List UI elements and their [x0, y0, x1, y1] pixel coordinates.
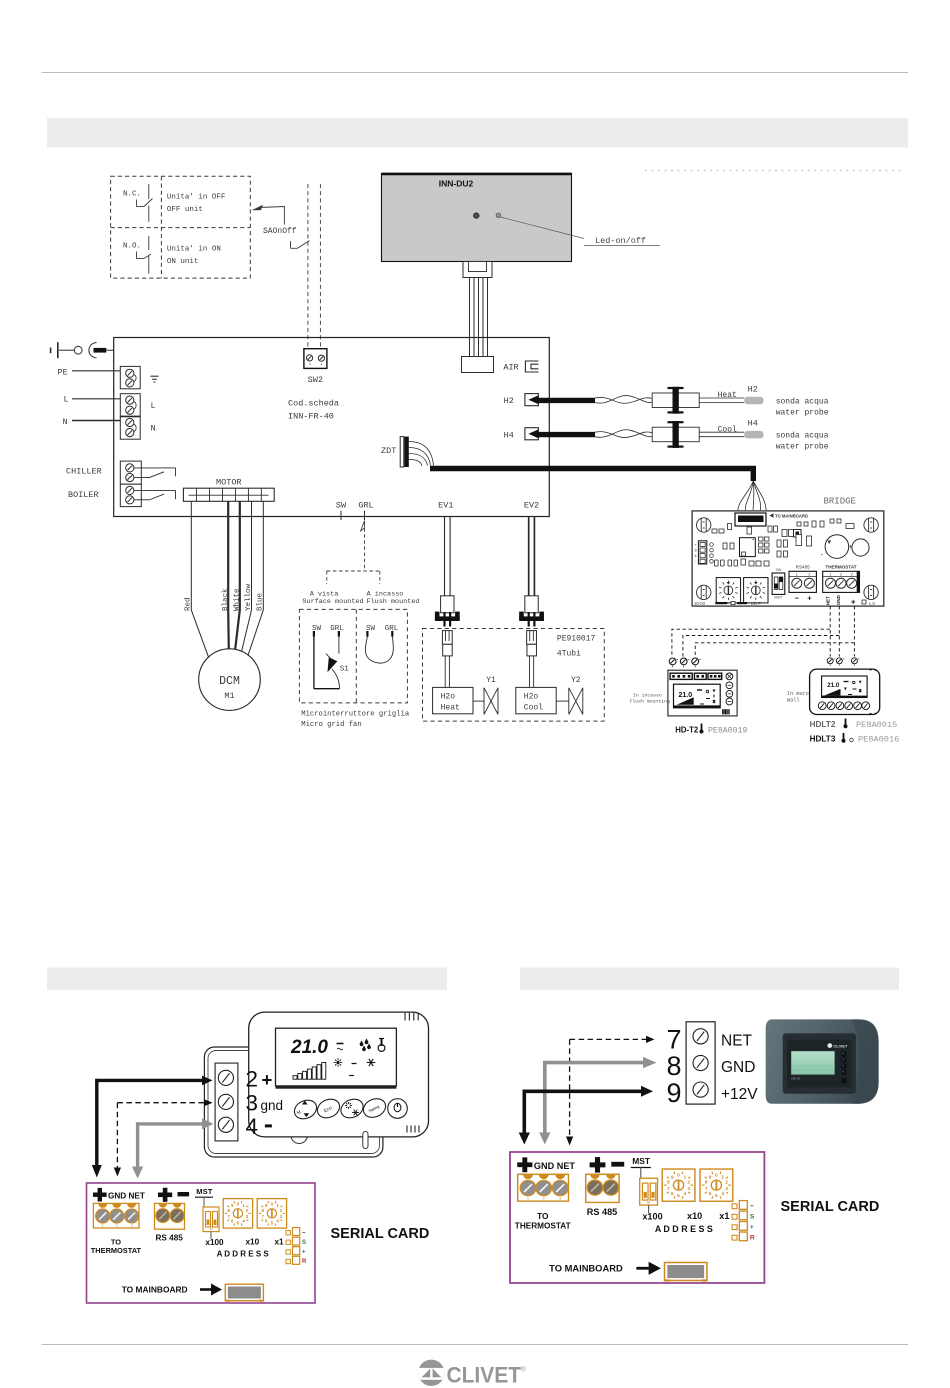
svg-text:TO MAINBOARD: TO MAINBOARD	[122, 1285, 188, 1295]
svg-text:1: 1	[796, 573, 798, 577]
svg-text:8: 8	[667, 1180, 670, 1186]
wire GRL dashed tee	[327, 570, 380, 572]
wire EV2 pair	[528, 517, 530, 613]
svg-text:TO MAINBOARD: TO MAINBOARD	[549, 1264, 623, 1274]
svg-text:+: +	[750, 1224, 754, 1231]
bridge small parts top	[712, 529, 717, 533]
mains fuse body	[94, 348, 107, 353]
bridge connector to mainboard	[735, 513, 766, 526]
zdt ribbon wires	[409, 442, 434, 466]
arrow gray to terminal 8	[545, 1061, 644, 1065]
bridge rotary switch tens	[716, 578, 740, 603]
SAOnOff switch symbol	[291, 247, 298, 249]
svg-text:N.O.: N.O.	[123, 242, 141, 250]
remote on/off selection table	[111, 176, 251, 278]
wire H2 thick	[536, 398, 595, 403]
svg-text:H4: H4	[504, 430, 514, 440]
lcd icon thermometer	[378, 1045, 385, 1052]
probe H4 sensor	[744, 431, 763, 439]
svg-text:2: 2	[543, 1196, 545, 1201]
wire SAOnOff pair dashed	[307, 184, 309, 349]
svg-text:0: 0	[677, 1172, 680, 1178]
display ribbon cable	[469, 278, 471, 357]
svg-text:Yellow: Yellow	[245, 583, 253, 611]
svg-text:PE: PE	[58, 368, 68, 378]
hdlt2 buttons	[818, 702, 826, 710]
bridge RS485 terminal	[789, 571, 816, 592]
display cable connector upper	[463, 262, 492, 278]
svg-text:®: ®	[521, 1366, 527, 1374]
hdt2 lcd	[674, 684, 721, 708]
bridge mounting hole BL	[697, 585, 711, 599]
terminal strip 7 8 9	[686, 1022, 715, 1104]
svg-text:x10: x10	[246, 1238, 260, 1247]
led on/off	[496, 213, 500, 217]
svg-text:4Tubi: 4Tubi	[557, 649, 581, 658]
lcd icon auto	[349, 1075, 354, 1077]
svg-text:3: 3	[851, 573, 853, 577]
arrow dashed to terminal 7	[570, 1038, 647, 1040]
svg-text:3: 3	[725, 1186, 728, 1192]
svg-text:R: R	[302, 1259, 307, 1265]
svg-text:Heat: Heat	[441, 704, 460, 713]
wire EV1 to valve box	[444, 656, 446, 688]
svg-text:−: −	[302, 1231, 306, 1237]
svg-text:SAOnOff: SAOnOff	[263, 227, 297, 236]
svg-text:EV2: EV2	[524, 500, 539, 510]
svg-text:21.0: 21.0	[290, 1037, 328, 1058]
hdlt2 lcd	[822, 676, 868, 698]
svg-text:SW: SW	[336, 500, 347, 510]
connector EV2 socket	[519, 612, 524, 620]
svg-text:NET: NET	[721, 1033, 753, 1050]
svg-text:A D D R E S S: A D D R E S S	[217, 1250, 270, 1259]
svg-text:5: 5	[677, 1193, 680, 1199]
A mainboard connector	[225, 1284, 263, 1301]
lcd icon drops	[360, 1041, 364, 1047]
svg-text:4: 4	[683, 1191, 686, 1197]
svg-text:HD-T2: HD-T2	[675, 725, 699, 734]
bridge resistors mid	[723, 543, 727, 549]
svg-text:Red: Red	[185, 597, 193, 611]
mains entry circle	[74, 346, 82, 354]
svg-text:M: M	[647, 1200, 650, 1204]
svg-text:SERIAL CARD: SERIAL CARD	[331, 1226, 430, 1242]
bridge rotary switch units	[744, 578, 768, 603]
svg-text:+12V: +12V	[721, 1086, 758, 1103]
svg-text:H2o: H2o	[524, 693, 539, 702]
thermostat HDLT2 body	[810, 669, 880, 714]
svg-text:INN-FR-40: INN-FR-40	[288, 412, 334, 422]
svg-text:BOILER: BOILER	[68, 490, 99, 500]
svg-text:2: 2	[840, 573, 842, 577]
svg-text:1: 1	[721, 1174, 724, 1180]
section band right	[520, 968, 899, 991]
wire H2 twisted pair	[595, 397, 652, 403]
svg-text:x1: x1	[719, 1211, 729, 1221]
serial card B	[510, 1152, 764, 1283]
svg-text:DD P: DD P	[751, 601, 761, 606]
svg-text:N: N	[151, 424, 156, 434]
svg-text:CLIVET: CLIVET	[447, 1363, 522, 1388]
svg-text:S: S	[302, 1240, 306, 1246]
svg-text:9: 9	[671, 1174, 674, 1180]
earth symbol	[151, 375, 159, 377]
svg-text:x1: x1	[275, 1238, 285, 1247]
motor DCM M1	[199, 649, 261, 711]
load H2o Heat box	[433, 687, 473, 713]
mains fuse arc	[89, 343, 97, 358]
bridge board outline	[692, 511, 884, 606]
svg-text:Y1: Y1	[486, 676, 496, 685]
thermostat front body	[249, 1012, 429, 1137]
wire ZDT bus thick	[430, 469, 753, 482]
svg-text:THERMOSTAT: THERMOSTAT	[825, 565, 856, 570]
svg-text:PE8A0019: PE8A0019	[708, 726, 747, 735]
svg-text:L: L	[151, 401, 156, 411]
svg-text:R: R	[750, 1234, 755, 1241]
svg-text:H2: H2	[748, 385, 758, 395]
mains entry ground symbol	[50, 348, 52, 354]
wire EV1 pair	[444, 517, 446, 613]
svg-text:sonda acqua: sonda acqua	[776, 432, 829, 441]
svg-text:Flush mounting: Flush mounting	[630, 699, 670, 705]
connector EV1 plug	[441, 596, 454, 613]
svg-text:2: 2	[725, 1180, 728, 1186]
svg-text:7: 7	[667, 1186, 670, 1192]
wire GRL dashed drop	[364, 522, 366, 571]
svg-text:GRL: GRL	[358, 500, 373, 510]
svg-text:Black: Black	[222, 588, 230, 611]
svg-text:ON: ON	[776, 568, 782, 572]
load H2o Cool box	[516, 687, 556, 713]
svg-text:Microinterruttore griglia: Microinterruttore griglia	[301, 711, 410, 719]
svg-text:7: 7	[667, 1025, 682, 1055]
svg-text:MST: MST	[196, 1187, 212, 1196]
svg-text:TO MAINBOARD: TO MAINBOARD	[775, 513, 808, 518]
connector SW2	[304, 349, 327, 369]
svg-text:21.0: 21.0	[679, 692, 693, 699]
A rotary x10	[223, 1199, 252, 1229]
connector H4 plug	[652, 427, 699, 442]
svg-text:A vista: A vista	[310, 590, 339, 598]
svg-text:+: +	[262, 1069, 273, 1090]
B terminal to thermostat	[518, 1174, 569, 1201]
svg-text:H2: H2	[504, 396, 514, 406]
svg-text:CLIVET: CLIVET	[833, 1044, 848, 1049]
B side connector	[732, 1204, 737, 1209]
svg-text:PE8A0015: PE8A0015	[856, 720, 897, 730]
A terminal to thermostat	[93, 1203, 139, 1228]
svg-text:Micro grid fan: Micro grid fan	[301, 721, 361, 729]
wire H4 to probe	[699, 431, 744, 433]
mains entry wire to board	[106, 349, 113, 351]
svg-text:Heat: Heat	[718, 391, 737, 400]
boiler contact wires	[134, 489, 176, 491]
svg-text:THERMOSTAT: THERMOSTAT	[91, 1246, 142, 1255]
svg-text:NET: NET	[826, 596, 831, 605]
connector EV2 plug	[525, 596, 538, 613]
svg-text:M: M	[210, 1227, 213, 1231]
svg-text:RS485: RS485	[796, 565, 810, 570]
thermostat HDLT2 terminals	[827, 658, 833, 664]
lcd icon minus	[352, 1063, 357, 1065]
svg-text:GND NET: GND NET	[108, 1192, 145, 1201]
thermostat back plate	[204, 1047, 383, 1157]
hdt2 side buttons	[726, 673, 733, 680]
svg-text:3: 3	[246, 1091, 259, 1116]
top rule	[42, 72, 908, 74]
bridge capacitor C2	[852, 539, 869, 556]
led power	[474, 213, 479, 218]
A side connector	[286, 1231, 290, 1235]
svg-text:21.0: 21.0	[827, 682, 840, 689]
svg-text:N: N	[63, 417, 68, 427]
svg-text:In incasso: In incasso	[633, 692, 662, 698]
svg-text:Unita' in ON: Unita' in ON	[167, 245, 221, 253]
svg-text:S1: S1	[340, 666, 350, 674]
svg-text:GND: GND	[836, 595, 841, 605]
svg-text:Wall: Wall	[787, 697, 799, 703]
display cable connector lower	[462, 357, 494, 373]
wire EV2 to valve box	[528, 656, 530, 688]
bridge pads row	[715, 560, 719, 566]
backplate notch	[291, 1137, 307, 1144]
B label plus gnd net	[517, 1157, 532, 1172]
A label plus gnd net	[93, 1188, 107, 1202]
A label plus minus	[158, 1188, 172, 1202]
svg-text:9: 9	[709, 1174, 712, 1180]
arrow dashed to terminal 3	[117, 1102, 204, 1104]
wire +12 dashed	[853, 606, 855, 656]
svg-text:2: 2	[687, 1180, 690, 1186]
svg-text:Cod.scheda: Cod.scheda	[288, 399, 339, 409]
bridge ic U1	[740, 538, 756, 557]
svg-text:sonda acqua: sonda acqua	[776, 398, 829, 407]
chiller contact wires	[134, 467, 176, 469]
B label plus minus	[590, 1157, 606, 1173]
svg-text:Surface mounted: Surface mounted	[302, 598, 363, 606]
svg-text:8: 8	[667, 1051, 682, 1081]
display unit INN-DU2	[382, 174, 572, 262]
wire H2 to probe	[699, 397, 744, 399]
svg-text:GND: GND	[721, 1059, 755, 1076]
svg-text:−: −	[795, 594, 800, 603]
photo lcd	[791, 1051, 834, 1074]
connector ZDT	[400, 437, 404, 467]
svg-text:2: 2	[808, 573, 810, 577]
hdt2 barcode	[722, 709, 724, 714]
logo clivet sail left	[422, 1369, 431, 1378]
svg-text:Y2: Y2	[571, 676, 581, 685]
svg-text:water probe: water probe	[776, 443, 829, 452]
wire H4 thick	[536, 432, 595, 437]
svg-text:Cool: Cool	[524, 704, 543, 713]
svg-text:HDLT2: HDLT2	[810, 720, 836, 729]
terminal strip 2 3 4	[215, 1063, 238, 1141]
photo logo	[827, 1043, 832, 1048]
svg-text:SERIAL CARD: SERIAL CARD	[781, 1199, 880, 1215]
svg-text:9: 9	[667, 1078, 682, 1108]
A rotary x1	[257, 1199, 286, 1229]
svg-text:x100: x100	[205, 1238, 224, 1247]
svg-text:Cool: Cool	[718, 425, 737, 434]
bridge label to mainboard tiny	[770, 513, 774, 518]
svg-text:A incasso: A incasso	[367, 590, 404, 598]
svg-text:5: 5	[715, 1193, 718, 1199]
SAOnOff callout arrow	[252, 205, 264, 211]
lcd icon sun	[334, 1058, 343, 1067]
wire H4 twisted pair	[595, 432, 652, 438]
svg-text:6: 6	[671, 1191, 674, 1197]
svg-text:x100: x100	[642, 1212, 662, 1222]
svg-text:GRL: GRL	[330, 625, 344, 633]
connector EV1 socket	[435, 612, 440, 620]
svg-text:RS 485: RS 485	[156, 1234, 184, 1243]
connector EV1 header	[442, 631, 452, 645]
svg-text:TO: TO	[537, 1212, 548, 1221]
probe H2 sensor	[744, 397, 763, 405]
bottom rule	[42, 1344, 908, 1346]
B rotary x10	[662, 1169, 695, 1201]
svg-text:2: 2	[116, 1224, 118, 1228]
svg-text:M1: M1	[224, 691, 234, 701]
svg-text:4: 4	[721, 1191, 724, 1197]
vents top right	[404, 1013, 406, 1021]
svg-text:+: +	[851, 598, 856, 607]
connector H2 plug	[652, 393, 699, 408]
svg-text:MST: MST	[774, 596, 783, 600]
svg-text:water probe: water probe	[776, 409, 829, 418]
bridge mounting hole TR	[864, 518, 878, 532]
svg-text:L: L	[64, 395, 69, 405]
svg-text:20-03: 20-03	[694, 601, 705, 606]
B mainboard connector	[665, 1262, 707, 1280]
header band	[47, 118, 908, 148]
bridge left connector J2	[698, 541, 706, 564]
A terminal rs485	[155, 1203, 185, 1229]
svg-text:gnd: gnd	[261, 1098, 284, 1113]
button power	[388, 1099, 408, 1119]
mainboard INN-FR-40 outline	[114, 338, 550, 517]
svg-text:PE910017: PE910017	[557, 635, 596, 644]
svg-text:In muro: In muro	[787, 691, 809, 697]
bridge mounting hole BR	[864, 585, 878, 599]
photo buttons	[841, 1051, 847, 1057]
svg-text:HDLT3: HDLT3	[810, 735, 836, 744]
svg-text:+: +	[302, 1250, 306, 1256]
backplate lever	[363, 1132, 368, 1149]
thermostat lcd frame	[276, 1028, 397, 1086]
svg-text:MST: MST	[632, 1156, 651, 1166]
svg-text:x10: x10	[687, 1211, 702, 1221]
motor wires	[191, 501, 208, 657]
svg-text:HID 50: HID 50	[792, 1077, 801, 1081]
svg-text:8: 8	[705, 1180, 708, 1186]
B terminal rs485	[586, 1174, 619, 1202]
svg-text:−: −	[750, 1203, 754, 1210]
svg-text:7: 7	[705, 1186, 708, 1192]
bridge mounting hole TL	[697, 518, 711, 532]
logo clivet sail right	[433, 1368, 442, 1377]
microswitch box dashed	[299, 609, 407, 703]
bridge capacitor C1	[825, 535, 849, 559]
svg-text:EV1: EV1	[438, 500, 453, 510]
svg-text:1: 1	[527, 1196, 529, 1201]
svg-text:0: 0	[715, 1172, 718, 1178]
svg-text:OFF unit: OFF unit	[167, 206, 203, 214]
bridge dip switch MST	[772, 573, 785, 594]
bridge THERMOSTAT terminal	[823, 571, 860, 592]
svg-text:3: 3	[131, 1224, 133, 1228]
svg-text:INN-DU2: INN-DU2	[439, 179, 474, 189]
hdt2 connector banks	[670, 673, 692, 679]
serial card A	[87, 1183, 316, 1303]
faint revision dots	[645, 170, 905, 172]
svg-text:SW2: SW2	[308, 375, 323, 385]
svg-text:1: 1	[683, 1174, 686, 1180]
dashed box PE910017 4Tubi	[423, 629, 605, 722]
svg-text:+: +	[807, 594, 812, 603]
svg-text:1: 1	[830, 573, 832, 577]
thermostat HD-T2 terminals	[669, 658, 676, 665]
svg-text:GND NET: GND NET	[534, 1161, 576, 1171]
arrow black to terminal 9	[524, 1090, 641, 1094]
lcd icon fan	[337, 1043, 344, 1045]
wire bus fan to bridge	[738, 481, 754, 510]
svg-text:6: 6	[709, 1191, 712, 1197]
svg-text:A D D R E S S: A D D R E S S	[655, 1224, 713, 1234]
connector EV2 header	[527, 631, 537, 645]
lcd icon snow	[367, 1059, 376, 1066]
svg-text:3: 3	[687, 1186, 690, 1192]
svg-text:Unita' in OFF: Unita' in OFF	[167, 194, 226, 202]
svg-text:PE8A0016: PE8A0016	[858, 735, 899, 745]
mains entry wire	[59, 349, 74, 351]
svg-text:ON unit: ON unit	[167, 258, 199, 266]
svg-text:AIR: AIR	[503, 363, 518, 373]
svg-text:THERMOSTAT: THERMOSTAT	[515, 1221, 571, 1230]
thermostat HD-T2 body	[668, 670, 737, 716]
wire NET dashed	[829, 606, 831, 656]
svg-text:2: 2	[246, 1067, 259, 1092]
svg-text:H2o: H2o	[441, 693, 456, 702]
svg-text:MOTOR: MOTOR	[216, 478, 242, 488]
led on/off callout	[501, 217, 585, 239]
bridge transistor	[794, 530, 802, 538]
svg-text:Led-on/off: Led-on/off	[595, 236, 646, 246]
arrow black to terminal 2	[97, 1079, 203, 1082]
svg-text:White: White	[233, 588, 241, 611]
svg-text:4: 4	[246, 1114, 259, 1139]
svg-text:DCM: DCM	[219, 675, 240, 688]
lcd bars ramp	[293, 1076, 297, 1080]
section band left	[47, 968, 447, 991]
svg-text:Blue: Blue	[257, 593, 265, 611]
B rotary x1	[700, 1169, 733, 1201]
svg-text:H4: H4	[748, 419, 758, 429]
arrow gray to terminal 4	[138, 1122, 203, 1125]
svg-text:BRIDGE: BRIDGE	[824, 497, 856, 507]
buttons row	[291, 1097, 319, 1123]
svg-text:1: 1	[102, 1224, 104, 1228]
svg-text:RS 485: RS 485	[587, 1207, 617, 1217]
svg-text:L.0: L.0	[869, 601, 875, 606]
svg-text:CHILLER: CHILLER	[66, 467, 102, 477]
wire GND dashed	[838, 606, 840, 656]
svg-text:S: S	[750, 1214, 755, 1221]
svg-text:ZDT: ZDT	[381, 446, 396, 456]
